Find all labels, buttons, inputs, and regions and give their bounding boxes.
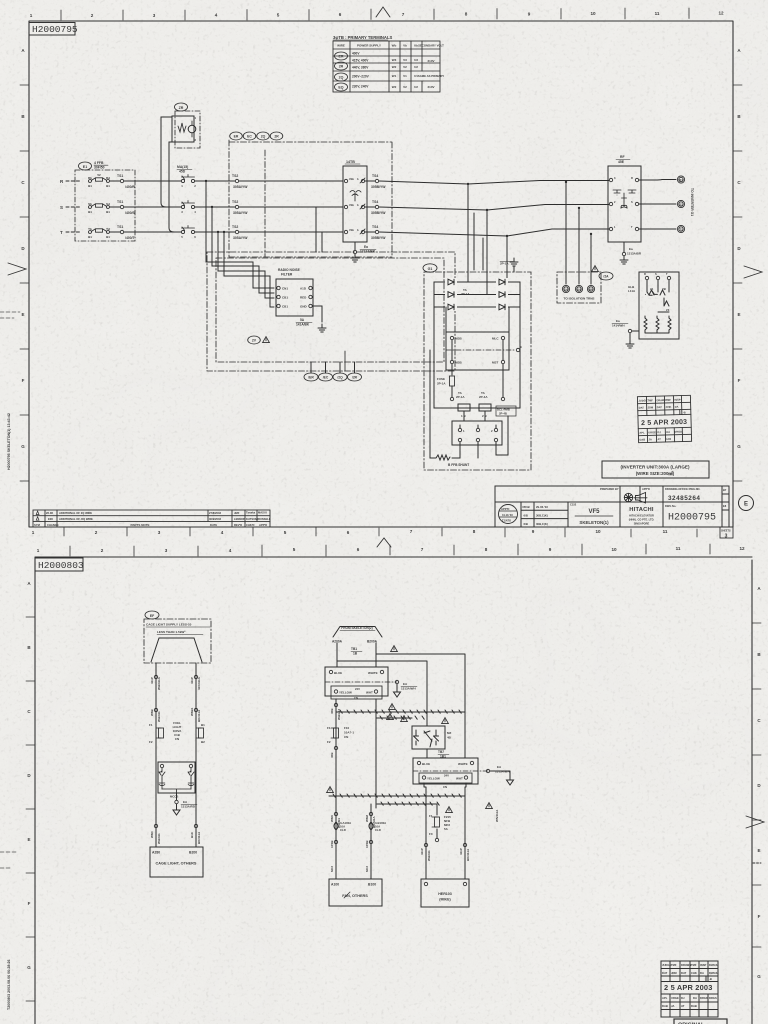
svg-text:MST: MST [492, 361, 499, 365]
svg-text:3: 3 [725, 534, 728, 540]
svg-text:S1: S1 [679, 202, 683, 206]
svg-text:V1: V1 [403, 74, 407, 78]
terminal [645, 276, 648, 279]
hexagon flag [151, 638, 202, 662]
terminal [458, 438, 461, 441]
TB1 ground [395, 680, 398, 683]
svg-text:W3: W3 [392, 58, 397, 62]
svg-text:MF2: MF2 [330, 866, 334, 872]
svg-text:1313A/BR: 1313A/BR [627, 252, 642, 256]
svg-text:/400/R: /400/R [125, 185, 136, 189]
EF oval [145, 611, 159, 619]
svg-text:4: 4 [221, 530, 224, 535]
terminal [635, 178, 638, 181]
svg-text:30B,C(K): 30B,C(K) [536, 514, 548, 518]
svg-text:(INVERTER UNIT:300A (LARGE): (INVERTER UNIT:300A (LARGE) [621, 465, 690, 470]
terminal [622, 252, 625, 255]
svg-text:VF5: VF5 [588, 509, 600, 515]
svg-text:SECONDARY VOLT: SECONDARY VOLT [418, 44, 444, 48]
svg-text:11: 11 [663, 529, 668, 534]
date stamp table sheet2 [661, 961, 718, 1017]
svg-text:MASUI: MASUI [258, 511, 267, 515]
svg-text:U2: U2 [414, 65, 418, 69]
svg-text:KATSUMI: KATSUMI [246, 517, 258, 521]
svg-text:T2000803 2003.08.06 06:28:26: T2000803 2003.08.06 06:28:26 [7, 959, 11, 1010]
wire drops to G1 rectifier [468, 184, 507, 294]
wires rectifier to relay box [446, 307, 509, 360]
phase stub dashes into breaker box [66, 181, 80, 232]
stamp circle [499, 505, 518, 524]
terminal [516, 348, 519, 351]
svg-text:TS2: TS2 [232, 225, 238, 229]
svg-text:W2: W2 [392, 65, 397, 69]
svg-text:12: 12 [718, 11, 724, 16]
svg-text:LESS THAN 1.5kW²: LESS THAN 1.5kW² [157, 630, 185, 634]
svg-text:W1: W1 [392, 74, 397, 78]
svg-text:SAME AS PRIMARY: SAME AS PRIMARY [418, 74, 444, 78]
svg-text:10A?-1: 10A?-1 [344, 731, 354, 735]
terminal [361, 179, 364, 182]
breaker S [89, 204, 110, 209]
svg-text:1414/WH: 1414/WH [612, 324, 625, 328]
svg-text:1313A/RD: 1313A/RD [181, 805, 196, 809]
svg-text:/400/T: /400/T [125, 236, 136, 240]
svg-text:2P-4B: 2P-4B [499, 412, 507, 416]
TS1 terminals [120, 179, 123, 182]
svg-text:7: 7 [421, 547, 424, 552]
svg-text:V3: V3 [403, 58, 407, 62]
svg-text:B FFB SHUNT: B FFB SHUNT [448, 463, 469, 467]
terminal [562, 285, 569, 292]
svg-text:C152: C152 [570, 503, 577, 507]
svg-text:305A/YW: 305A/YW [233, 211, 248, 215]
svg-text:B1: B1 [106, 210, 110, 214]
warning triangle [401, 716, 408, 722]
logos [624, 493, 647, 504]
svg-text:E08: E08 [48, 517, 53, 521]
title block sheet1 [495, 486, 733, 540]
dashed box [144, 619, 211, 663]
svg-text:YELLOW: YELLOW [427, 777, 440, 781]
svg-text:45D: 45D [179, 170, 186, 174]
svg-text:MCCB: MCCB [170, 795, 178, 799]
svg-text:R1: R1 [679, 178, 683, 182]
svg-text:HER103: HER103 [438, 892, 452, 896]
ground [507, 776, 514, 785]
right margin letters [757, 586, 761, 979]
fuse [435, 817, 440, 827]
terminal [422, 776, 425, 779]
svg-text:7: 7 [402, 12, 405, 17]
svg-text:2Q: 2Q [339, 76, 344, 80]
svg-text:WHT: WHT [366, 691, 373, 695]
terminal [329, 670, 332, 673]
svg-text:45E: 45E [618, 160, 625, 164]
svg-text:6/B: 6/B [524, 514, 528, 518]
svg-text:DRAWN: DRAWN [681, 963, 691, 967]
terminal [277, 286, 280, 289]
svg-text:DAB: DAB [662, 1004, 668, 1008]
svg-text:ER: ER [339, 55, 344, 59]
svg-text:F: F [738, 378, 741, 383]
svg-text:141A/BK: 141A/BK [296, 323, 310, 327]
svg-text:230V, 240V: 230V, 240V [352, 85, 369, 89]
svg-text:WHT: WHT [456, 777, 463, 781]
terminal [677, 176, 684, 183]
svg-text:MZ: MZ [447, 731, 451, 735]
INVERTER UNIT label box [602, 461, 709, 478]
sheets cell [720, 527, 733, 538]
wire label + terminal [330, 708, 341, 720]
svg-text:F: F [758, 914, 761, 919]
svg-text:CB1: CB1 [282, 296, 288, 300]
svg-text:L11A: L11A [628, 289, 636, 293]
svg-text:W6D: W6D [150, 831, 154, 839]
svg-text:TO INVERTER G1: TO INVERTER G1 [690, 188, 694, 216]
twisted pair hatched runs lower [329, 794, 465, 805]
svg-text:DA: DA [666, 430, 670, 434]
svg-text:440V, 380V: 440V, 380V [352, 66, 369, 70]
svg-text:R: R [631, 176, 633, 180]
svg-text:Vbb: Vbb [349, 177, 354, 181]
ovals /ER /EC /2Q /2R row below nest [344, 351, 346, 371]
svg-text:9: 9 [528, 12, 531, 17]
svg-text:8: 8 [465, 12, 468, 17]
svg-text:V2: V2 [403, 85, 407, 89]
TS4 terminals [365, 181, 375, 232]
svg-text:11: 11 [676, 546, 681, 551]
terminal [309, 286, 312, 289]
RF outputs to R1 S1 T1 [639, 180, 676, 230]
DCL-PMB label box [496, 406, 516, 416]
warning triangle [391, 646, 398, 652]
svg-text:10: 10 [590, 11, 596, 16]
terminal [353, 250, 356, 253]
svg-text:2P-1A: 2P-1A [461, 292, 470, 296]
terminal [334, 840, 337, 843]
svg-text:305B/YW: 305B/YW [371, 185, 386, 189]
svg-text:F10: F10 [344, 726, 350, 730]
ZR sub block [175, 103, 188, 111]
svg-text:AT: AT [657, 437, 661, 441]
svg-text:AT: AT [681, 1004, 685, 1008]
ground [351, 254, 359, 262]
terminal [417, 761, 420, 764]
warning triangle [327, 787, 334, 793]
svg-text:4: 4 [215, 13, 218, 18]
svg-text:U3: U3 [414, 58, 418, 62]
svg-text:9: 9 [549, 547, 552, 552]
terminal [628, 329, 631, 332]
svg-text:Vb: Vb [403, 44, 407, 48]
svg-text:/ER: /ER [308, 376, 314, 380]
svg-text:G: G [27, 965, 31, 970]
terminal [334, 703, 337, 706]
svg-text:1: 1 [32, 530, 35, 535]
breaker T [89, 229, 110, 234]
G1 rectifier block [423, 264, 437, 272]
svg-text:10: 10 [595, 529, 601, 534]
ovals ER EC 2Q 2R row (top) [230, 132, 283, 140]
svg-text:CAGE LIGHT, OTHERS: CAGE LIGHT, OTHERS [156, 862, 197, 866]
svg-text:E: E [21, 312, 24, 317]
svg-text:CB1: CB1 [282, 305, 288, 309]
svg-text:6: 6 [339, 12, 342, 17]
svg-text:-B: -B [683, 410, 686, 414]
svg-text:12: 12 [739, 546, 745, 551]
svg-text:E: E [27, 837, 30, 842]
svg-text:Z1: Z1 [650, 287, 654, 291]
svg-text:TMF: TMF [671, 963, 677, 967]
top ruler [37, 546, 745, 553]
svg-text:24V: 24V [355, 687, 360, 691]
fold mark right edge sheet2 [746, 816, 764, 828]
network ground at left [632, 330, 639, 332]
frame border [35, 557, 752, 1024]
svg-text:T.SATO: T.SATO [502, 519, 511, 523]
svg-text:210V: 210V [427, 85, 434, 89]
svg-text:30F/50: 30F/50 [94, 166, 105, 170]
svg-text:305A/YW: 305A/YW [233, 185, 248, 189]
svg-text:WH/L13: WH/L13 [337, 709, 341, 720]
svg-text:F2: F2 [149, 740, 153, 744]
top ruler [30, 11, 724, 19]
svg-text:1: 1 [30, 13, 33, 18]
warning triangle [263, 337, 270, 343]
svg-text:411P: 411P [150, 677, 154, 684]
svg-text:G1: G1 [428, 267, 433, 271]
svg-text:-B: -B [709, 977, 712, 981]
svg-text:FILTER: FILTER [281, 273, 293, 277]
svg-text:411P: 411P [420, 848, 424, 855]
svg-text:/2Q: /2Q [337, 376, 343, 380]
svg-text:DAT: DAT [681, 971, 687, 975]
svg-text:8: 8 [473, 529, 476, 534]
svg-text:2: 2 [101, 548, 104, 553]
right wire labels [420, 809, 499, 861]
TB7 ground [486, 769, 489, 772]
terminal [458, 428, 461, 431]
svg-text:TO ISOLATION TRNS: TO ISOLATION TRNS [564, 297, 595, 301]
svg-text:DA: DA [700, 971, 704, 975]
fold mark right edge [744, 266, 762, 278]
svg-text:RF: RF [620, 155, 625, 159]
wires TS2 to 14TB [239, 181, 343, 232]
svg-text:B1: B1 [201, 723, 205, 727]
svg-text:JDM: JDM [648, 405, 654, 409]
svg-text:2R: 2R [274, 135, 279, 139]
terminal [450, 360, 453, 363]
svg-text:TS2: TS2 [232, 174, 238, 178]
svg-text:U4: U4 [564, 287, 568, 291]
terminal [375, 179, 378, 182]
relay/contactor block right [387, 714, 394, 720]
cage light box [150, 847, 203, 877]
svg-text:2: 2 [95, 530, 98, 535]
EMC dashed enclosures (noise filter nest) [207, 252, 455, 371]
second wire pair left [336, 804, 371, 879]
svg-text:1: 1 [37, 548, 40, 553]
svg-text:TS4: TS4 [372, 200, 378, 204]
svg-text:S: S [60, 205, 63, 210]
svg-text:ADDITIONAL OF 2Q WIRE: ADDITIONAL OF 2Q WIRE [59, 511, 92, 515]
svg-text:BLUE: BLUE [422, 762, 430, 766]
svg-text:T1: T1 [679, 227, 683, 231]
svg-text:URGE: URGE [648, 430, 656, 434]
svg-text:2: 2 [91, 13, 94, 18]
ground [510, 258, 518, 266]
TO ISOLATION TRNS box [592, 266, 599, 272]
svg-text:305B/YW: 305B/YW [371, 236, 386, 240]
svg-text:5A: 5A [300, 318, 305, 322]
terminal [334, 812, 337, 815]
svg-text:PREPARED BY: PREPARED BY [600, 487, 619, 491]
svg-text:10SB: 10SB [365, 840, 369, 848]
svg-text:APL: APL [639, 431, 645, 435]
svg-text:W6N: W6N [330, 815, 334, 822]
svg-text:H2000795: H2000795 [668, 513, 716, 524]
fold mark top center sheet2 [377, 538, 391, 547]
svg-text:EQ: EQ [338, 86, 343, 90]
svg-text:B200: B200 [189, 851, 197, 855]
svg-text:B1: B1 [88, 184, 92, 188]
svg-text:FUSE: FUSE [437, 377, 445, 381]
svg-text:Ea: Ea [364, 245, 368, 249]
wires below TB7 [424, 783, 466, 879]
H2000803 label box [35, 558, 83, 571]
date mini table [523, 505, 549, 526]
svg-text:S: S [631, 200, 633, 204]
svg-text:DWGS: DWGS [709, 971, 718, 975]
G1 relay box [446, 332, 509, 370]
svg-text:ER: ER [234, 135, 239, 139]
svg-text:Wb: Wb [392, 44, 397, 48]
svg-text:ZB: ZB [662, 287, 666, 291]
svg-text:DRGS: DRGS [709, 996, 717, 1000]
svg-text:WHITE: WHITE [458, 762, 468, 766]
svg-text:MLC: MLC [492, 337, 499, 341]
2V oval + warning [248, 336, 261, 344]
breakers CLR [334, 822, 373, 830]
svg-text:G: G [737, 444, 741, 449]
svg-text:4 FFB: 4 FFB [94, 161, 104, 165]
svg-text:1B: 1B [353, 652, 358, 656]
svg-text:411P: 411P [459, 848, 463, 855]
svg-text:11: 11 [655, 11, 660, 16]
svg-text:DJ: DJ [681, 996, 685, 1000]
svg-text:RADIO NOISE: RADIO NOISE [278, 268, 301, 272]
svg-text:APP'D: APP'D [501, 507, 509, 511]
svg-text:RED: RED [300, 296, 307, 300]
svg-text:6: 6 [357, 547, 360, 552]
contactor contact [181, 226, 194, 234]
fold mark left edge [8, 263, 26, 275]
HER103 box [421, 879, 469, 907]
svg-text:DAB: DAB [691, 1004, 697, 1008]
fold mark top center [376, 7, 390, 17]
svg-text:E1: E1 [83, 165, 87, 169]
svg-text:MSB: MSB [455, 337, 463, 341]
svg-text:HITACHI: HITACHI [629, 507, 654, 513]
contactor R [181, 175, 194, 183]
svg-text:S: S [655, 272, 657, 276]
svg-text:GND: GND [300, 305, 308, 309]
svg-text:1313A/WH: 1313A/WH [401, 687, 416, 691]
svg-text:305A/YW: 305A/YW [233, 236, 248, 240]
svg-text:W6B: W6B [150, 709, 154, 717]
svg-text:/2A: /2A [603, 275, 609, 279]
svg-text:29-06-'03: 29-06-'03 [536, 505, 548, 509]
svg-text:(MIKE): (MIKE) [439, 898, 451, 902]
warning triangle [442, 718, 449, 724]
svg-text:B1C: B1C [190, 831, 194, 838]
svg-text:B2: B2 [201, 740, 205, 744]
svg-text:/EC: /EC [323, 376, 329, 380]
terminal [609, 178, 612, 181]
svg-text:DAT: DAT [657, 405, 663, 409]
bottom pins + CT boxes [450, 397, 453, 400]
terminal [435, 838, 438, 841]
dash-dot enclosure around transformer section [229, 140, 392, 257]
svg-text:Rb: Rb [88, 176, 92, 180]
svg-text:40B: 40B [330, 752, 334, 758]
svg-text:305B/YW: 305B/YW [371, 211, 386, 215]
svg-text:6: 6 [347, 530, 350, 535]
svg-text:A280: A280 [152, 851, 160, 855]
svg-text:URGE: URGE [671, 996, 679, 1000]
svg-text:CN: CN [344, 735, 348, 739]
14TB ground [354, 242, 356, 250]
svg-text:B100: B100 [368, 883, 376, 887]
ORIGINAL box bottom [674, 1019, 727, 1024]
breaker R [89, 178, 110, 183]
RF ground [623, 242, 625, 252]
svg-text:2 5 APR 2003: 2 5 APR 2003 [641, 419, 687, 427]
svg-text:CN: CN [175, 737, 179, 741]
svg-text:H2000795 SKELETON(1) 13:43:4: H2000795 SKELETON(1) 13:43:42 [7, 413, 11, 470]
svg-text:G: G [757, 974, 761, 979]
svg-text:210V: 210V [427, 59, 434, 63]
svg-text:TS1: TS1 [117, 200, 123, 204]
svg-text:DRGD: DRGD [674, 430, 682, 434]
fuse [450, 376, 455, 386]
warning triangle [446, 807, 453, 813]
diode [448, 279, 454, 285]
terminal [154, 708, 157, 711]
svg-text:27/8/2003: 27/8/2003 [209, 511, 221, 515]
svg-text:2Q: 2Q [261, 135, 266, 139]
svg-text:DAB: DAB [639, 437, 645, 441]
wires contactor to TS2 [195, 181, 235, 232]
svg-text:DRAWING-OFFICE DWG.NO.: DRAWING-OFFICE DWG.NO. [665, 487, 701, 491]
svg-text:400V: 400V [352, 52, 360, 56]
G1 top-right ground [513, 266, 515, 272]
wires from phase lines down into the filter nest [206, 181, 355, 373]
svg-text:Sd: Sd [106, 202, 110, 206]
terminal [154, 675, 157, 678]
terminal [344, 179, 347, 182]
svg-text:CN1: CN1 [282, 287, 288, 291]
warning triangle [389, 704, 396, 710]
G1 inner solid box [434, 282, 520, 408]
svg-text:31.10.'03: 31.10.'03 [502, 513, 513, 517]
bottom ruler [32, 529, 668, 535]
wire labels rotated [150, 676, 201, 690]
svg-text:411P: 411P [190, 677, 194, 684]
svg-text:5: 5 [277, 13, 280, 18]
svg-text:10SB: 10SB [330, 840, 334, 848]
svg-text:BLUE: BLUE [334, 671, 342, 675]
